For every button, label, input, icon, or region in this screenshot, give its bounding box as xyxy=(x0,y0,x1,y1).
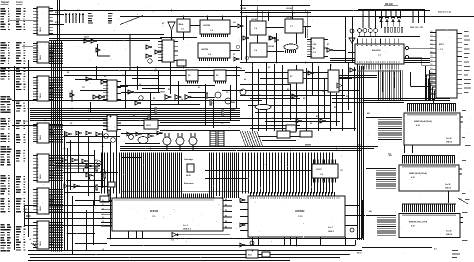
svg-text:5: 5 xyxy=(37,133,38,135)
svg-text:Cartridge: Cartridge xyxy=(184,158,194,161)
svg-text:3: 3 xyxy=(107,123,108,125)
svg-text:6: 6 xyxy=(37,135,38,137)
svg-text:2: 2 xyxy=(37,45,38,47)
svg-text:K2: K2 xyxy=(287,89,289,91)
svg-text:RS-232: RS-232 xyxy=(385,4,394,6)
svg-text:2: 2 xyxy=(37,126,38,128)
svg-text:LS373: LS373 xyxy=(316,169,322,171)
svg-text:Vcc 7: Vcc 7 xyxy=(328,227,333,229)
svg-text:5: 5 xyxy=(107,129,108,131)
svg-text:GND 14: GND 14 xyxy=(445,187,451,190)
svg-text:D3: D3 xyxy=(102,213,104,215)
svg-text:2: 2 xyxy=(37,192,38,194)
svg-text:7: 7 xyxy=(37,94,38,96)
svg-text:C6: C6 xyxy=(272,118,274,120)
svg-text:8: 8 xyxy=(37,177,38,179)
svg-text:LA10: LA10 xyxy=(146,124,151,127)
svg-text:4.19: 4.19 xyxy=(411,176,415,179)
svg-text:A15: A15 xyxy=(55,21,58,24)
svg-text:1: 1 xyxy=(37,43,38,45)
svg-text:8: 8 xyxy=(37,139,38,141)
svg-text:K9: K9 xyxy=(78,155,80,157)
svg-text:D5: D5 xyxy=(431,52,433,54)
svg-text:K3: K3 xyxy=(198,87,200,89)
svg-text:8 m: 8 m xyxy=(434,249,437,251)
svg-text:1: 1 xyxy=(107,81,108,83)
svg-text:3: 3 xyxy=(37,83,38,85)
svg-text:LA13: LA13 xyxy=(84,36,89,39)
svg-text:LA15: LA15 xyxy=(23,120,28,123)
svg-text:1/4: 1/4 xyxy=(233,21,236,24)
svg-text:D1: D1 xyxy=(431,35,433,37)
svg-text:6: 6 xyxy=(37,54,38,56)
svg-text:2: 2 xyxy=(107,119,108,121)
svg-text:RAM1 8Kx8 (2Kx8): RAM1 8Kx8 (2Kx8) xyxy=(409,172,427,175)
svg-text:LR35902: LR35902 xyxy=(295,211,305,213)
svg-text:3: 3 xyxy=(37,48,38,50)
svg-text:K7: K7 xyxy=(88,120,90,122)
svg-text:2: 2 xyxy=(37,158,38,160)
svg-text:C4: C4 xyxy=(322,90,324,93)
svg-text:1: 1 xyxy=(37,155,38,157)
svg-text:4/8: 4/8 xyxy=(369,210,372,213)
svg-text:GND 14: GND 14 xyxy=(446,233,452,236)
svg-text:D6: D6 xyxy=(431,89,433,91)
svg-text:2: 2 xyxy=(107,85,108,87)
svg-text:74LS: 74LS xyxy=(39,206,42,211)
svg-text:K4: K4 xyxy=(310,122,312,125)
svg-text:LS472B: LS472B xyxy=(203,24,211,27)
svg-text:D2: D2 xyxy=(431,72,433,74)
svg-text:1: 1 xyxy=(311,39,312,41)
svg-text:6: 6 xyxy=(37,171,38,173)
svg-text:7: 7 xyxy=(37,174,38,176)
svg-text:R3: R3 xyxy=(346,96,348,98)
svg-text:C.9: C.9 xyxy=(313,52,316,54)
svg-text:4.18: 4.18 xyxy=(416,124,420,127)
svg-text:Signal: Signal xyxy=(1,0,9,4)
svg-text:5: 5 xyxy=(37,21,38,23)
svg-text:GND 2: GND 2 xyxy=(328,231,334,233)
svg-text:7: 7 xyxy=(162,60,163,62)
svg-text:4.19: 4.19 xyxy=(411,225,415,228)
svg-text:1: 1 xyxy=(107,116,108,118)
svg-text:LS74A: LS74A xyxy=(286,7,293,10)
svg-text:R5: R5 xyxy=(225,226,227,228)
svg-text:R8: R8 xyxy=(303,98,305,100)
svg-text:8: 8 xyxy=(37,30,38,32)
svg-text:GND 14: GND 14 xyxy=(446,141,452,144)
svg-text:1: 1 xyxy=(37,189,38,191)
svg-text:9: 9 xyxy=(37,141,38,143)
svg-text:K11: K11 xyxy=(95,160,98,162)
svg-text:3: 3 xyxy=(107,88,108,90)
svg-text:5: 5 xyxy=(37,52,38,54)
svg-text:EF9345: EF9345 xyxy=(150,210,159,213)
svg-text:C.7: C.7 xyxy=(290,26,293,28)
svg-text:C5: C5 xyxy=(221,123,223,125)
svg-text:LS74A: LS74A xyxy=(240,7,247,10)
svg-text:L4.20: L4.20 xyxy=(186,174,191,177)
svg-text:R6: R6 xyxy=(240,68,242,70)
svg-text:8: 8 xyxy=(37,209,38,211)
svg-text:K8: K8 xyxy=(153,98,155,100)
svg-text:C2: C2 xyxy=(226,92,228,94)
svg-text:7: 7 xyxy=(311,54,312,56)
svg-text:C8: C8 xyxy=(70,123,72,125)
svg-text:3: 3 xyxy=(37,128,38,130)
svg-text:6: 6 xyxy=(107,99,108,101)
svg-text:8MHz: 8MHz xyxy=(179,24,184,26)
svg-text:C.0: C.0 xyxy=(171,240,174,242)
svg-text:D3: D3 xyxy=(431,76,433,78)
svg-text:7/1: 7/1 xyxy=(340,170,343,172)
svg-text:7: 7 xyxy=(37,137,38,139)
svg-text:8: 8 xyxy=(37,59,38,61)
svg-text:5: 5 xyxy=(37,168,38,170)
svg-text:D5: D5 xyxy=(431,84,433,86)
svg-text:Vcc 28: Vcc 28 xyxy=(446,231,451,233)
svg-text:C3: C3 xyxy=(139,84,141,86)
svg-text:A13: A13 xyxy=(55,11,58,14)
svg-text:D2: D2 xyxy=(431,39,433,41)
svg-text:7: 7 xyxy=(37,206,38,208)
svg-text:K3: K3 xyxy=(268,67,270,69)
svg-text:K7: K7 xyxy=(162,23,164,25)
svg-text:LS74A: LS74A xyxy=(268,45,275,48)
svg-text:C.1: C.1 xyxy=(378,55,381,57)
svg-text:R7: R7 xyxy=(211,103,213,105)
svg-text:R5: R5 xyxy=(259,95,261,97)
svg-text:2: 2 xyxy=(37,80,38,82)
svg-text:RAM1 8Kx8 (2Kx8): RAM1 8Kx8 (2Kx8) xyxy=(414,120,432,123)
svg-text:C.6: C.6 xyxy=(181,29,184,31)
svg-text:D3: D3 xyxy=(431,43,433,45)
svg-text:R0: R0 xyxy=(225,199,227,201)
svg-text:Vcc 28: Vcc 28 xyxy=(445,184,450,186)
svg-text:6: 6 xyxy=(37,238,38,240)
svg-text:74LS: 74LS xyxy=(39,27,42,32)
svg-text:9: 9 xyxy=(37,61,38,63)
svg-text:D0: D0 xyxy=(431,31,433,33)
svg-text:R1: R1 xyxy=(225,204,227,206)
svg-text:8/9 m: 8/9 m xyxy=(357,253,362,255)
svg-text:GND 4, 8: GND 4, 8 xyxy=(183,228,191,231)
svg-text:Conn: Conn xyxy=(16,0,23,4)
svg-text:1: 1 xyxy=(37,124,38,126)
svg-text:2: 2 xyxy=(37,225,38,227)
svg-text:3: 3 xyxy=(162,48,163,50)
svg-text:C9: C9 xyxy=(181,99,183,101)
svg-text:Sabrina 0.7g: Sabrina 0.7g xyxy=(438,12,452,14)
svg-text:5: 5 xyxy=(37,235,38,237)
svg-text:8: 8 xyxy=(37,96,38,98)
svg-text:74LS: 74LS xyxy=(39,135,42,140)
svg-text:K7: K7 xyxy=(233,54,235,56)
svg-text:+5: +5 xyxy=(102,249,104,251)
svg-text:D0: D0 xyxy=(102,200,104,202)
svg-text:GND -12V +12V: GND -12V +12V xyxy=(410,27,424,29)
svg-text:1: 1 xyxy=(37,222,38,224)
svg-text:3: 3 xyxy=(37,161,38,163)
svg-text:9: 9 xyxy=(37,33,38,35)
svg-text:DMA0: DMA0 xyxy=(230,108,235,111)
svg-text:Vcc 28: Vcc 28 xyxy=(446,138,451,140)
svg-text:74LS: 74LS xyxy=(39,55,42,60)
svg-text:DMA1: DMA1 xyxy=(230,101,235,104)
svg-text:2: 2 xyxy=(162,44,163,46)
svg-text:C17: C17 xyxy=(82,87,85,89)
svg-text:5: 5 xyxy=(162,54,163,56)
svg-text:D1: D1 xyxy=(431,68,433,70)
svg-text:9: 9 xyxy=(37,99,38,101)
svg-text:D2: D2 xyxy=(102,208,104,210)
svg-text:LS472B: LS472B xyxy=(201,48,209,51)
svg-text:74LS: 74LS xyxy=(39,241,42,246)
svg-text:Extension: Extension xyxy=(184,182,194,185)
svg-text:C7: C7 xyxy=(155,69,157,71)
svg-text:5: 5 xyxy=(37,88,38,90)
svg-text:C1: C1 xyxy=(330,65,332,67)
svg-text:1: 1 xyxy=(162,41,163,43)
svg-text:R4: R4 xyxy=(168,88,170,91)
svg-text:D6: D6 xyxy=(431,56,433,58)
svg-text:C.1: C.1 xyxy=(440,49,443,51)
svg-text:4/8: 4/8 xyxy=(367,112,370,115)
svg-text:9: 9 xyxy=(37,180,38,182)
svg-text:8: 8 xyxy=(37,244,38,246)
svg-text:R9: R9 xyxy=(104,76,106,78)
svg-text:+5: +5 xyxy=(29,239,31,241)
svg-text:LS74A: LS74A xyxy=(251,18,258,21)
svg-text:LS6: LS6 xyxy=(313,44,316,46)
svg-text:6: 6 xyxy=(37,91,38,93)
svg-text:K7: K7 xyxy=(290,76,292,78)
svg-text:D1: D1 xyxy=(102,204,104,206)
svg-text:LS74A: LS74A xyxy=(286,16,293,19)
svg-text:C.9: C.9 xyxy=(320,174,323,176)
svg-text:3: 3 xyxy=(37,14,38,16)
svg-text:7: 7 xyxy=(37,57,38,59)
svg-text:MEMW: MEMW xyxy=(305,145,311,147)
svg-text:9: 9 xyxy=(37,212,38,214)
svg-text:D7: D7 xyxy=(431,60,433,62)
svg-text:5: 5 xyxy=(107,96,108,98)
svg-text:R1: R1 xyxy=(64,10,66,12)
svg-text:R3: R3 xyxy=(225,215,227,217)
svg-text:40A 0520: 40A 0520 xyxy=(372,49,381,52)
svg-text:3: 3 xyxy=(37,228,38,230)
svg-text:K7: K7 xyxy=(327,44,329,46)
svg-text:B2: B2 xyxy=(313,48,315,50)
svg-text:D5: D5 xyxy=(102,221,104,223)
svg-text:6: 6 xyxy=(37,204,38,206)
svg-text:74LS: 74LS xyxy=(39,93,42,98)
svg-text:3: 3 xyxy=(37,195,38,197)
svg-text:8: 8 xyxy=(311,56,312,58)
svg-text:K5: K5 xyxy=(188,75,190,77)
svg-text:9: 9 xyxy=(37,247,38,249)
svg-text:Vss 1: Vss 1 xyxy=(183,225,188,227)
svg-text:K6: K6 xyxy=(122,75,124,77)
svg-text:1: 1 xyxy=(37,8,38,10)
svg-text:6: 6 xyxy=(162,57,163,59)
svg-text:5: 5 xyxy=(37,201,38,203)
svg-text:K5: K5 xyxy=(334,107,336,109)
svg-text:K5: K5 xyxy=(216,75,218,77)
svg-text:D0: D0 xyxy=(431,64,433,66)
svg-text:7: 7 xyxy=(37,27,38,29)
svg-text:K4: K4 xyxy=(67,71,69,74)
svg-text:74LS: 74LS xyxy=(39,174,42,179)
svg-text:2: 2 xyxy=(37,11,38,13)
svg-text:K10: K10 xyxy=(316,116,319,118)
svg-text:K9: K9 xyxy=(244,79,246,81)
svg-text:1: 1 xyxy=(37,77,38,79)
svg-text:EPROM 27Kx-27V8: EPROM 27Kx-27V8 xyxy=(409,222,428,224)
svg-text:D6: D6 xyxy=(102,225,104,227)
svg-text:D7: D7 xyxy=(431,93,433,95)
svg-text:R2: R2 xyxy=(133,115,135,117)
